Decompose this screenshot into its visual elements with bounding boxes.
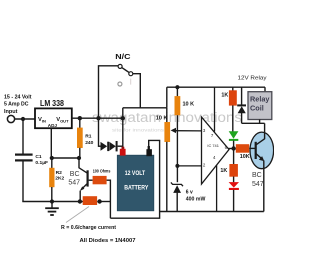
wire wiper to pin3 [175,130,202,132]
watermark [92,110,242,132]
wire input down to C1 [22,119,24,154]
wire R2 bottom [51,187,53,202]
input label [4,94,32,115]
wire pin 7 to rail [214,87,216,131]
wire R8 to red LED [233,177,235,183]
svg-text:10 K: 10 K [183,102,195,108]
svg-text:547: 547 [68,180,80,187]
resistor R4 0.6 ohm sense [83,196,97,205]
switch throw contact [129,72,133,76]
positive rail top [167,86,265,88]
wire switch down to diodes [98,118,100,147]
wire diode row [99,145,102,147]
R2 value label [55,170,64,182]
wire battery minus up-over-down [149,140,160,211]
battery text [124,171,148,192]
svg-text:R2: R2 [56,170,63,176]
wire pin2 [177,165,201,167]
diode D5 relay flyback [237,87,246,123]
svg-text:6 v: 6 v [186,189,193,195]
svg-text:site for innovations: site for innovations [112,127,165,132]
wire ground rail left [22,201,83,203]
R1 value label [85,133,93,145]
diode D2 [109,142,115,151]
relay coil RL1 [248,92,272,120]
svg-text:Input: Input [4,109,18,115]
preset wiper arrow [171,128,176,133]
svg-text:240: 240 [85,140,93,146]
op-amp U2 IC741 [202,117,230,184]
resistor R2 [49,168,54,187]
battery B1 12V [117,155,154,211]
wire preset top [166,108,168,123]
node R4 right [97,199,101,203]
transistor Q1 BC547 [79,158,88,202]
wire R1 top [79,118,81,128]
wire VOUT output [72,117,124,119]
zener D3 6v [171,182,183,211]
node VOUT-battery branch [121,116,125,120]
switch unused N/O contact [118,82,122,86]
node VOUT-R1 [78,116,82,120]
wire R2 top [51,158,53,168]
wire battery bottom route [110,212,159,219]
preset P1 10K [164,122,170,142]
svg-text:BC: BC [70,171,80,178]
node zener-pin2 [175,164,179,168]
wire R3 right to battery plus rail [107,180,111,218]
svg-text:R1: R1 [85,133,92,139]
node input junction [21,117,25,121]
svg-text:2K2: 2K2 [55,176,64,182]
wire battery plus riser [122,108,124,150]
wire R4 right to corner [97,201,110,203]
node VOUT-switch [96,116,100,120]
LED red D6 [229,182,239,190]
svg-text:All Diodes = 1N4007: All Diodes = 1N4007 [80,238,136,244]
svg-text:12 VOLT: 12 VOLT [125,171,146,177]
regulator U1 LM338 [35,108,72,128]
svg-text:10 K: 10 K [156,116,168,122]
resistor R6 1K [229,90,237,105]
node output [231,146,235,150]
wire green LED to output node [233,141,235,149]
svg-text:ADJ: ADJ [48,123,58,128]
resistor R7 10K base [236,144,249,153]
battery minus terminal [148,146,150,150]
wire preset bottom [166,142,168,212]
wire output pin 6 [229,148,236,150]
wire rail to relay coil [264,87,266,92]
svg-text:Relay: Relay [250,95,270,104]
resistor R3 100 Ohms [93,176,107,184]
svg-text:Coil: Coil [250,103,264,112]
transistor Q2 BC547 [250,132,274,169]
svg-text:5 Amp DC: 5 Amp DC [4,101,29,107]
node Q1 emitter [78,199,82,203]
svg-text:BATTERY: BATTERY [124,185,148,191]
svg-text:15 - 24 Volt: 15 - 24 Volt [4,94,32,100]
wire flyback bottom link [242,122,265,124]
zener label [186,189,206,202]
capacitor C1 [15,154,33,156]
svg-text:N/C: N/C [115,52,131,61]
wire sense to preset and rail riser [166,87,168,108]
svg-text:12V Relay: 12V Relay [238,75,267,81]
wire input to LM338 [15,118,35,120]
switch faint tick [130,79,132,85]
node ADJ-Q1 collector [77,156,81,160]
wire sense line top [123,107,167,109]
node rail-R5 [175,85,179,89]
wire bottom rail right [160,211,264,213]
switch lever [122,68,129,73]
wire relay coil bottom [259,120,261,124]
R4 pointer line [66,207,89,223]
wire switch left riser [99,66,119,118]
wire ADJ pin down [50,128,52,158]
node ground junction [50,199,54,203]
wire R5 to zener [176,115,178,182]
diode D1 [101,142,108,151]
wire 1K led resistor top [232,87,234,90]
svg-text:1K: 1K [220,168,227,174]
wire output to 1K2 [233,149,235,165]
wire switch throw to battery branch [133,74,140,108]
svg-text:IC 741: IC 741 [207,143,218,148]
wire D2 to battery plus [118,145,123,147]
node ADJ-R2 [50,156,54,160]
svg-text:VOUT: VOUT [56,117,69,123]
svg-text:1K: 1K [221,93,228,99]
battery plus terminal [122,147,125,150]
wire red LED to rail [233,190,235,212]
Q2 label [252,172,264,188]
resistor R8 1K [229,164,238,177]
svg-text:VIN: VIN [38,117,46,123]
svg-text:C1: C1 [35,154,42,160]
input terminal J1 [7,115,14,122]
switch pole contact [118,64,122,68]
wire ADJ horizontal [51,157,79,159]
LED green D4 [229,131,239,141]
wire R5 top [176,87,178,96]
wire R6 to green LED [232,105,234,131]
svg-text:400 mW: 400 mW [186,197,206,203]
Q1 label [68,171,80,186]
svg-text:0.1µF: 0.1µF [35,160,48,166]
wire R1 bottom [79,148,81,158]
resistor R5 10K [175,96,181,115]
svg-text:547: 547 [252,181,264,188]
wire pin 4 to ground rail [216,165,218,211]
svg-text:LM 338: LM 338 [40,99,64,108]
wire Q1 base to R3 [89,179,93,181]
svg-text:100 Ohms: 100 Ohms [93,169,111,175]
ground [45,202,59,216]
C1 value label [35,154,48,166]
svg-text:BC: BC [252,172,262,179]
svg-text:R = 0.6/charge current: R = 0.6/charge current [61,225,116,231]
resistor R1 [77,128,83,148]
wire C1 to ground rail [22,162,24,202]
svg-text:10K: 10K [240,154,250,160]
